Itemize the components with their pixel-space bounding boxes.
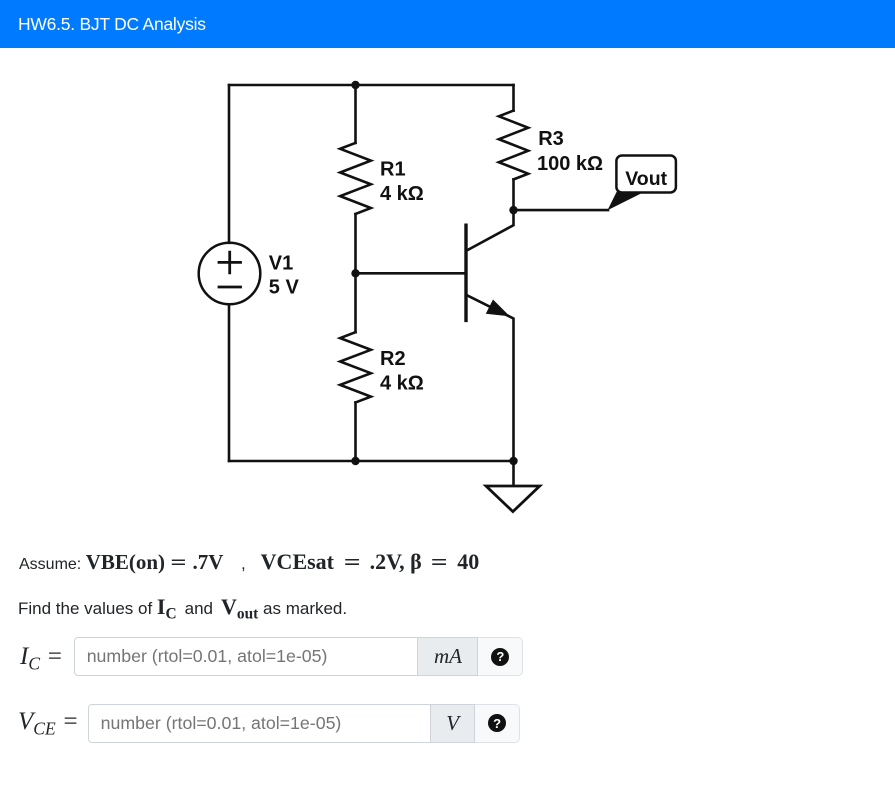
svg-text:R2: R2 [380, 348, 406, 370]
svg-text:100 kΩ: 100 kΩ [537, 153, 603, 175]
svg-text:Vout: Vout [625, 168, 667, 190]
svg-text:5 V: 5 V [269, 277, 300, 299]
svg-text:R3: R3 [538, 128, 564, 150]
svg-text:4 kΩ: 4 kΩ [380, 183, 424, 205]
svg-text:R1: R1 [380, 159, 406, 181]
svg-text:4 kΩ: 4 kΩ [380, 373, 424, 395]
svg-text:V1: V1 [269, 253, 293, 275]
